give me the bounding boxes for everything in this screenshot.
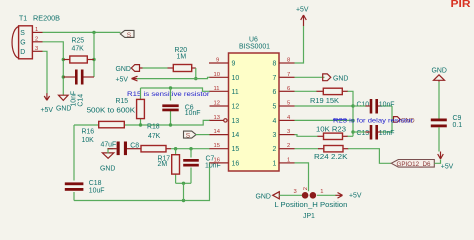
svg-text:GND: GND bbox=[116, 66, 131, 73]
node joint bbox=[182, 182, 185, 185]
wire R20 down to +5V row bbox=[195, 68, 197, 79]
label S bbox=[120, 30, 134, 38]
svg-text:C18: C18 bbox=[89, 180, 102, 187]
wire pin2 G bbox=[43, 42, 64, 95]
svg-text:PIR: PIR bbox=[451, 0, 471, 10]
pin stubs left 9-16 bbox=[209, 63, 229, 163]
svg-text:GND: GND bbox=[256, 193, 271, 200]
label GND (left, to R20) bbox=[116, 65, 143, 73]
node R25 left bbox=[62, 58, 65, 61]
wire left vertical to bus bbox=[73, 125, 75, 201]
svg-text:14: 14 bbox=[232, 132, 240, 139]
svg-text:S: S bbox=[186, 132, 191, 139]
svg-text:+5V: +5V bbox=[116, 76, 129, 83]
svg-text:1: 1 bbox=[273, 160, 277, 167]
label GPIO12_D6 bbox=[391, 160, 434, 169]
svg-text:1: 1 bbox=[35, 27, 38, 33]
capacitor C9 bbox=[431, 115, 462, 129]
node pin5/C10 bbox=[351, 104, 354, 107]
capacitor C8 bbox=[101, 142, 140, 156]
svg-text:C10: C10 bbox=[357, 101, 370, 108]
svg-text:12: 12 bbox=[214, 101, 220, 107]
wire pin5 row bbox=[295, 105, 354, 107]
svg-text:BISS0001: BISS0001 bbox=[239, 43, 270, 50]
svg-text:R18: R18 bbox=[147, 124, 160, 131]
op-amp U6 BISS0001 IC body bbox=[229, 37, 280, 171]
svg-text:GND: GND bbox=[100, 165, 115, 172]
svg-text:+5V: +5V bbox=[349, 193, 362, 200]
svg-text:500K to 600K: 500K to 600K bbox=[87, 108, 136, 115]
comment blue text R23 bbox=[333, 118, 414, 125]
svg-text:10nF: 10nF bbox=[205, 163, 221, 170]
svg-text:11: 11 bbox=[214, 86, 220, 92]
svg-text:C9: C9 bbox=[453, 115, 462, 122]
pin stubs right 8-1 bbox=[279, 63, 295, 163]
svg-text:10uF: 10uF bbox=[89, 188, 105, 195]
svg-text:9: 9 bbox=[216, 58, 219, 64]
svg-text:10K: 10K bbox=[82, 137, 95, 144]
wire pin4 row bbox=[295, 119, 354, 121]
node C13 left bbox=[351, 130, 354, 133]
wire R17/C7 joint bbox=[176, 182, 191, 184]
node pin4 bbox=[351, 119, 354, 122]
wire pin7 to GND label bbox=[295, 76, 325, 78]
capacitor C7 bbox=[183, 149, 221, 184]
wire +5V row to pin 10 bbox=[137, 77, 210, 78]
svg-text:G: G bbox=[20, 39, 25, 46]
node R15 bottom bbox=[139, 123, 142, 126]
svg-text:2M: 2M bbox=[158, 161, 168, 168]
svg-text:2: 2 bbox=[35, 36, 38, 42]
node bus / R17C7 drop bbox=[182, 199, 185, 202]
svg-text:+5V: +5V bbox=[41, 107, 54, 114]
svg-text:0.1: 0.1 bbox=[453, 122, 463, 129]
node R17 top bbox=[174, 147, 177, 150]
connector JP1 bbox=[256, 187, 362, 220]
svg-text:3: 3 bbox=[294, 189, 297, 195]
resistor R17 bbox=[158, 149, 180, 184]
label S (pin14) bbox=[184, 131, 211, 139]
svg-text:16: 16 bbox=[214, 157, 220, 163]
resistor R24 bbox=[295, 146, 349, 162]
svg-text:+5V: +5V bbox=[441, 164, 454, 171]
resistor R23 bbox=[295, 126, 354, 139]
svg-text:R16: R16 bbox=[82, 129, 95, 136]
power +5V (GPIO, down) bbox=[438, 152, 454, 171]
svg-text:GND: GND bbox=[56, 106, 71, 113]
wire pin3 D bbox=[43, 51, 48, 94]
svg-text:GND: GND bbox=[333, 76, 348, 83]
svg-text:8: 8 bbox=[287, 58, 290, 64]
svg-text:5: 5 bbox=[273, 104, 277, 111]
pin numbers right inside bbox=[273, 61, 277, 168]
svg-text:15: 15 bbox=[232, 146, 240, 153]
pin numbers left inside bbox=[232, 61, 240, 168]
svg-text:3: 3 bbox=[273, 132, 277, 139]
node C6 top bbox=[169, 86, 172, 89]
svg-text:D: D bbox=[20, 49, 25, 56]
svg-text:9: 9 bbox=[232, 61, 236, 68]
wire GPIO to +5V bbox=[434, 160, 440, 164]
node junction S wire bbox=[92, 31, 95, 34]
svg-text:8: 8 bbox=[273, 61, 277, 68]
svg-text:10K R23: 10K R23 bbox=[316, 126, 346, 133]
svg-text:15: 15 bbox=[214, 143, 220, 149]
ground (pin G) bbox=[56, 95, 71, 112]
label +5V (left row) bbox=[116, 76, 139, 83]
wire vertical right of R25 bbox=[93, 32, 95, 77]
wire pin1 S to label bbox=[43, 31, 121, 33]
svg-text:7: 7 bbox=[287, 72, 290, 78]
svg-text:S: S bbox=[127, 32, 132, 39]
capacitor C18 bbox=[62, 180, 105, 195]
svg-text:GPIO12_D6: GPIO12_D6 bbox=[397, 161, 431, 168]
svg-text:5: 5 bbox=[287, 101, 290, 107]
wire R18 to pin15 bbox=[171, 148, 210, 150]
svg-text:4: 4 bbox=[273, 118, 277, 125]
svg-text:12: 12 bbox=[232, 104, 240, 111]
svg-text:R15 is sensitive resistor: R15 is sensitive resistor bbox=[127, 91, 211, 98]
svg-text:14: 14 bbox=[214, 129, 221, 135]
svg-text:R24 2.2K: R24 2.2K bbox=[314, 154, 348, 161]
node R20/+5V row bbox=[194, 77, 197, 80]
pin numbers right outside bbox=[287, 58, 291, 164]
capacitor C10 bbox=[353, 99, 395, 114]
bottom bus wire bbox=[74, 163, 210, 201]
resistor R25 bbox=[63, 38, 94, 63]
sensor T1 RE200B bbox=[12, 16, 60, 59]
svg-text:10nF: 10nF bbox=[185, 110, 201, 117]
resistor R20 bbox=[168, 47, 196, 72]
wire GND label to R20 bbox=[143, 67, 168, 69]
wire bottom row to pin13 bbox=[74, 120, 210, 125]
ground (C8) bbox=[100, 153, 115, 172]
svg-text:1: 1 bbox=[287, 157, 290, 163]
wire C9 to +5V down arrow bbox=[438, 127, 440, 151]
ground (C9 top, inverted) bbox=[432, 67, 447, 82]
resistor R19 bbox=[295, 88, 349, 105]
svg-text:L Position_H Position: L Position_H Position bbox=[274, 202, 347, 209]
label GND (pin7) bbox=[323, 74, 349, 83]
node C7 top bbox=[189, 147, 192, 150]
svg-text:47uF: 47uF bbox=[101, 142, 117, 149]
svg-text:6: 6 bbox=[273, 89, 277, 96]
svg-text:C13: C13 bbox=[357, 130, 370, 137]
node R25 right bbox=[92, 58, 95, 61]
svg-text:13: 13 bbox=[232, 118, 240, 125]
svg-text:R19 15K: R19 15K bbox=[310, 98, 339, 105]
svg-text:C14: C14 bbox=[77, 94, 84, 107]
wire joint drop to bus bbox=[183, 183, 185, 200]
svg-text:2: 2 bbox=[303, 187, 309, 190]
svg-text:3: 3 bbox=[287, 129, 290, 135]
capacitor C14 bbox=[63, 70, 94, 107]
svg-text:16: 16 bbox=[232, 160, 240, 167]
resistor R18 bbox=[136, 124, 171, 152]
svg-text:10: 10 bbox=[214, 72, 220, 78]
svg-text:1: 1 bbox=[320, 189, 323, 195]
node C14 left bbox=[62, 75, 65, 78]
svg-text:RE200B: RE200B bbox=[33, 16, 60, 23]
svg-text:10nF: 10nF bbox=[379, 130, 395, 137]
svg-text:GND: GND bbox=[432, 67, 447, 74]
svg-text:JP1: JP1 bbox=[303, 213, 315, 220]
wire R24 to GPIO label bbox=[348, 149, 391, 164]
svg-text:6: 6 bbox=[287, 86, 290, 92]
pin numbers left outside bbox=[214, 58, 221, 164]
svg-text:11: 11 bbox=[232, 89, 239, 96]
svg-text:R23 is for delay resistor: R23 is for delay resistor bbox=[333, 118, 414, 125]
svg-text:S: S bbox=[20, 30, 25, 37]
svg-text:R15: R15 bbox=[116, 98, 129, 105]
svg-text:47K: 47K bbox=[148, 133, 161, 140]
wire C10 right down bbox=[391, 106, 393, 132]
svg-text:7: 7 bbox=[273, 75, 277, 82]
resistor R15 bbox=[116, 88, 145, 125]
wire pin8 to +5V bbox=[295, 26, 304, 63]
wire pin1 to JP1 bbox=[295, 163, 309, 191]
capacitor C13 bbox=[353, 125, 395, 140]
label GND (small, C10/C13) bbox=[394, 117, 416, 125]
svg-text:47K: 47K bbox=[72, 45, 85, 52]
svg-text:R25: R25 bbox=[72, 38, 85, 45]
resistor R16 bbox=[82, 121, 125, 144]
power +5V (pin D) bbox=[41, 93, 54, 114]
svg-text:10: 10 bbox=[232, 75, 240, 82]
svg-text:1M: 1M bbox=[177, 54, 187, 61]
wire pin11 row bbox=[141, 88, 211, 91]
node C6 bottom bbox=[169, 123, 172, 126]
svg-text:2: 2 bbox=[287, 143, 290, 149]
svg-text:T1: T1 bbox=[19, 16, 27, 23]
svg-text:2: 2 bbox=[273, 146, 277, 153]
wire gnd to C9 bbox=[438, 82, 440, 119]
wire R19 right down bbox=[348, 91, 354, 136]
svg-text:3: 3 bbox=[35, 46, 38, 52]
svg-text:+5V: +5V bbox=[296, 7, 309, 14]
svg-text:13: 13 bbox=[214, 115, 220, 121]
power +5V (top) bbox=[296, 7, 309, 27]
capacitor C6 bbox=[162, 88, 201, 125]
wire gnd riser to C8 bbox=[108, 149, 113, 154]
